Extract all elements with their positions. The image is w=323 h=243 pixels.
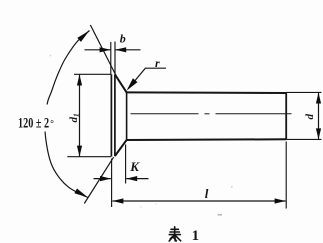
svg-text:d: d [304,114,316,120]
b dimension line right tail [115,49,140,51]
svg-text:d1: d1 [68,113,81,122]
caption glyph biao (table) drawn as strokes [169,227,181,241]
angle extension line top (cone edge extended) [90,25,116,76]
b dimension line left tail [85,49,111,51]
svg-text:r: r [155,56,160,70]
cone-shank junction line [126,92,128,140]
shank bottom line [127,138,287,141]
arc arrowhead bottom [74,189,88,198]
arc arrowhead top [77,31,89,42]
angle extension line bottom (cone edge extended) [84,157,113,203]
b dimension arrow left [100,47,111,52]
d1 dimension line [79,75,81,157]
svg-text:b: b [120,32,126,46]
d1 arrow bottom [77,146,82,157]
angle dimension arc 120 deg [45,31,90,198]
d1 arrow top [77,75,82,86]
svg-text:1: 1 [192,228,200,243]
d extension line top [286,91,321,93]
faint scan speckle [218,214,223,216]
l arrow right [275,198,286,203]
center line dot [205,113,210,115]
l extension line left (head face extended) [111,159,113,208]
shank top line [127,91,287,94]
svg-text:K: K [129,159,140,174]
svg-text:°: ° [50,118,54,128]
b extension line right [114,42,116,75]
l dimension line [112,200,285,202]
l arrow left [112,198,123,203]
K dimension line left tail [94,178,111,180]
faint scan speckles [50,55,52,57]
b dimension arrow right [115,47,126,52]
K arrow right [126,176,137,181]
d1 extension line top [74,73,111,75]
d1 extension line bottom [67,156,111,158]
rivet head flat face line (right) [114,74,116,156]
K extension line right [125,145,127,184]
white gap where text crosses arc [42,105,59,132]
head cone bottom edge [115,140,127,156]
r leader line [128,68,166,89]
head cone top edge [115,74,127,92]
center line dash [131,113,199,115]
r leader arrowhead [127,78,138,90]
d arrow bottom [316,128,321,139]
svg-text:l: l [205,186,209,201]
shank end line [285,93,287,140]
l extension line right (shank end extended) [285,142,287,209]
d arrow top [316,93,321,104]
K dimension line right tail [126,178,148,180]
svg-text:120 ± 2: 120 ± 2 [18,115,49,131]
d extension line bottom [286,138,321,140]
center line dash right [216,113,292,115]
K arrow left [100,176,111,181]
d dimension line [318,93,320,140]
rivet head flat face line (left) [110,74,112,156]
b extension line left [110,42,112,74]
